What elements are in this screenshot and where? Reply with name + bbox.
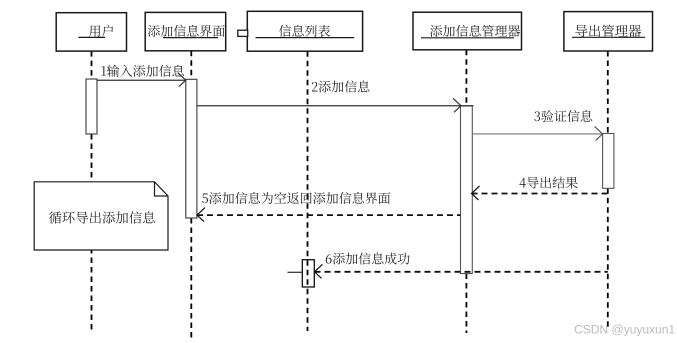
svg-text:CSDN @yuyuxun1: CSDN @yuyuxun1 (574, 323, 675, 337)
